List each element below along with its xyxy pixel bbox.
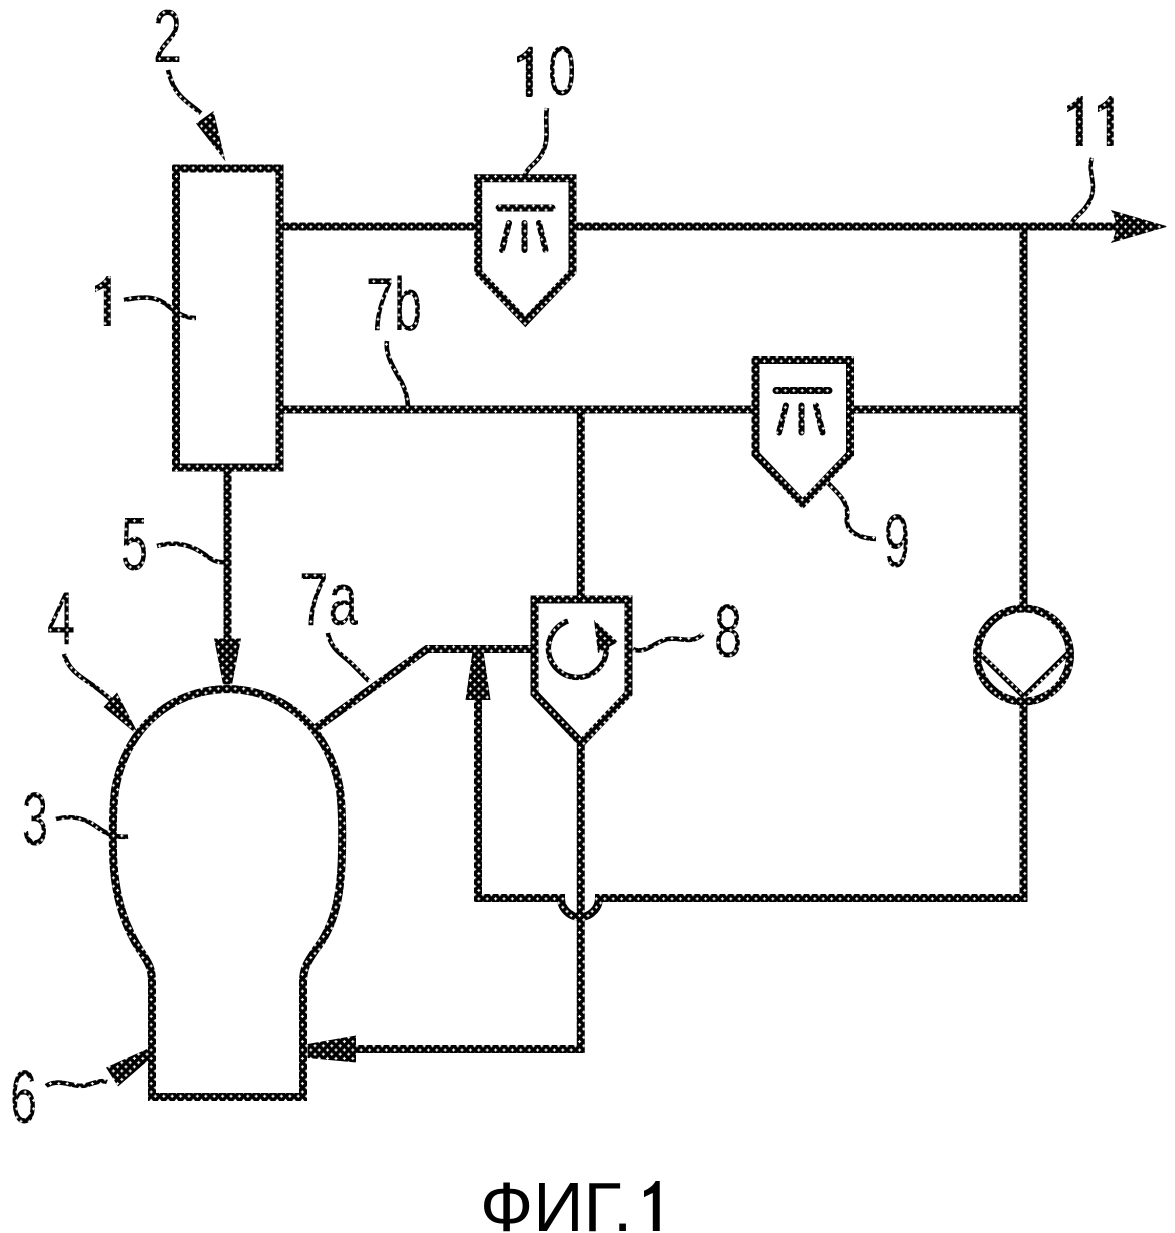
leader for 9 xyxy=(828,483,876,539)
svg-text:ФИГ.: ФИГ. xyxy=(480,1168,632,1233)
leader for 3 xyxy=(56,817,128,837)
vessel 3 (bulb) xyxy=(113,689,343,1097)
arrow up into 7a line xyxy=(466,652,491,701)
leader for 7b xyxy=(387,341,408,406)
arrow 6 onto vessel 3 neck xyxy=(106,1049,152,1087)
wire: from component 8 bottom down and left to vessel 3 neck xyxy=(352,740,581,1049)
wire: right vertical into pump top xyxy=(1020,227,1028,610)
leader for 10 xyxy=(525,108,547,176)
spray nozzle 10 xyxy=(478,178,572,321)
leader for 1 xyxy=(124,298,196,318)
rotation arrow inside 8 xyxy=(548,621,606,677)
wire: line 5 from vessel 1 bottom xyxy=(224,465,232,645)
arrow 2 into vessel 1 xyxy=(196,111,226,162)
spray symbol of 10 xyxy=(499,208,552,250)
label 1 xyxy=(95,276,111,326)
leader for 6 xyxy=(46,1081,107,1086)
recirculation unit 8 xyxy=(535,600,629,744)
wire: top product line from vessel 1 to outlet 11 xyxy=(283,223,1118,231)
leader for 5 xyxy=(157,544,224,562)
label 11 xyxy=(1067,96,1083,146)
leader for 7a xyxy=(328,633,369,681)
vessel 1 xyxy=(176,169,280,468)
spray symbol of 9 xyxy=(776,391,829,433)
leader for 2 xyxy=(168,70,201,113)
leader for 11 xyxy=(1072,158,1093,223)
wire: pump bottom, bottom return run with hop, left riser xyxy=(478,694,1024,917)
pump xyxy=(977,609,1070,702)
spray nozzle 9 xyxy=(756,360,851,504)
arrow 5 into vessel 3 top xyxy=(214,639,241,685)
wire: line 7b from vessel 1 to right vertical xyxy=(283,406,1023,414)
arrow into vessel 3 neck right xyxy=(308,1036,357,1063)
leader for 4 xyxy=(64,654,111,700)
label 10 xyxy=(517,47,533,97)
wire: line 7a diagonal from vessel 3 to component 8 xyxy=(309,649,536,733)
wire: vertical from 7b down to component 8 xyxy=(577,409,585,601)
arrow 11 outlet xyxy=(1111,210,1168,243)
arrow 4 onto vessel 3 xyxy=(104,693,141,738)
leader for 8 xyxy=(633,634,703,650)
